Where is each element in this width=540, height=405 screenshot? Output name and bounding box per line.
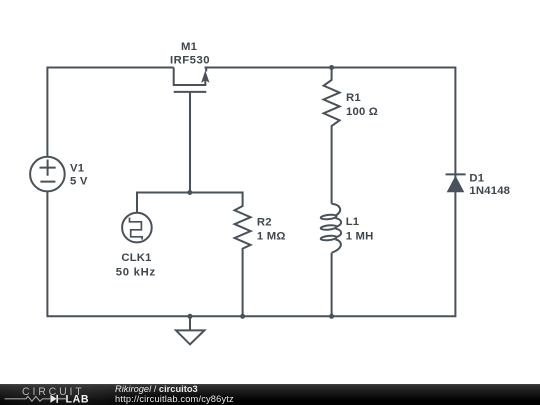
svg-text:5 V: 5 V — [70, 175, 88, 187]
svg-text:L1: L1 — [346, 216, 360, 228]
svg-text:1 MΩ: 1 MΩ — [257, 231, 286, 243]
svg-text:M1: M1 — [181, 41, 197, 53]
svg-text:R2: R2 — [257, 216, 272, 228]
svg-text:50 kHz: 50 kHz — [116, 266, 156, 278]
svg-text:1 MH: 1 MH — [346, 231, 374, 243]
svg-text:1N4148: 1N4148 — [469, 185, 510, 197]
svg-text:CLK1: CLK1 — [121, 252, 151, 264]
svg-text:IRF530: IRF530 — [170, 55, 210, 67]
svg-text:V1: V1 — [70, 162, 84, 174]
svg-text:100 Ω: 100 Ω — [346, 106, 378, 118]
svg-text:R1: R1 — [346, 92, 361, 104]
svg-text:D1: D1 — [469, 172, 484, 184]
svg-text:LAB: LAB — [66, 394, 90, 405]
